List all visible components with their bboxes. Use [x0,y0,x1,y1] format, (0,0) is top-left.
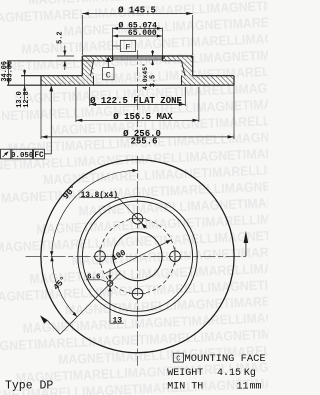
svg-text:11: 11 [237,381,249,392]
svg-text:13.8(x4): 13.8(x4) [81,192,118,200]
svg-text:F: F [125,42,130,52]
svg-text:Type DP: Type DP [5,380,53,393]
svg-text:Ø 122.5 FLAT ZONE: Ø 122.5 FLAT ZONE [90,96,182,106]
svg-text:C: C [106,70,111,80]
svg-text:4.15: 4.15 [217,368,241,379]
svg-text:13: 13 [112,316,122,325]
svg-text:MOUNTING FACE: MOUNTING FACE [185,353,266,365]
svg-text:Ø 145.5: Ø 145.5 [118,5,156,15]
svg-text:mm: mm [250,381,262,392]
svg-text:12.8: 12.8 [23,91,31,108]
svg-text:4.0x45°: 4.0x45° [141,63,149,90]
svg-text:5.2: 5.2 [56,31,64,43]
svg-text:Ø 156.5 MAX: Ø 156.5 MAX [113,112,173,122]
svg-text:WEIGHT: WEIGHT [167,368,203,379]
svg-text:MIN TH: MIN TH [167,381,203,392]
svg-text:0.050: 0.050 [11,152,34,160]
svg-text:6.6: 6.6 [87,273,101,281]
svg-text:65.000: 65.000 [128,29,157,38]
svg-text:C: C [176,355,180,363]
svg-text:33.86: 33.86 [7,61,15,82]
svg-text:255.6: 255.6 [130,136,157,146]
svg-text:3.5: 3.5 [150,75,158,87]
svg-text:Kg: Kg [244,368,256,379]
svg-text:FC: FC [34,152,44,160]
